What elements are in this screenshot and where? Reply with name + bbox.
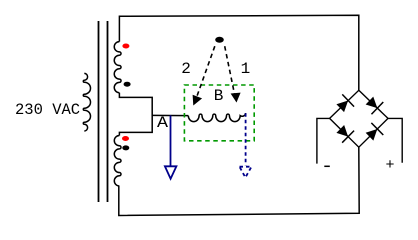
svg-text:1: 1 xyxy=(241,60,251,78)
svg-text:B: B xyxy=(214,87,224,105)
svg-text:A: A xyxy=(157,114,168,132)
svg-text:+: + xyxy=(386,157,395,174)
svg-text:230 VAC: 230 VAC xyxy=(15,101,80,119)
svg-text:2: 2 xyxy=(181,60,191,78)
